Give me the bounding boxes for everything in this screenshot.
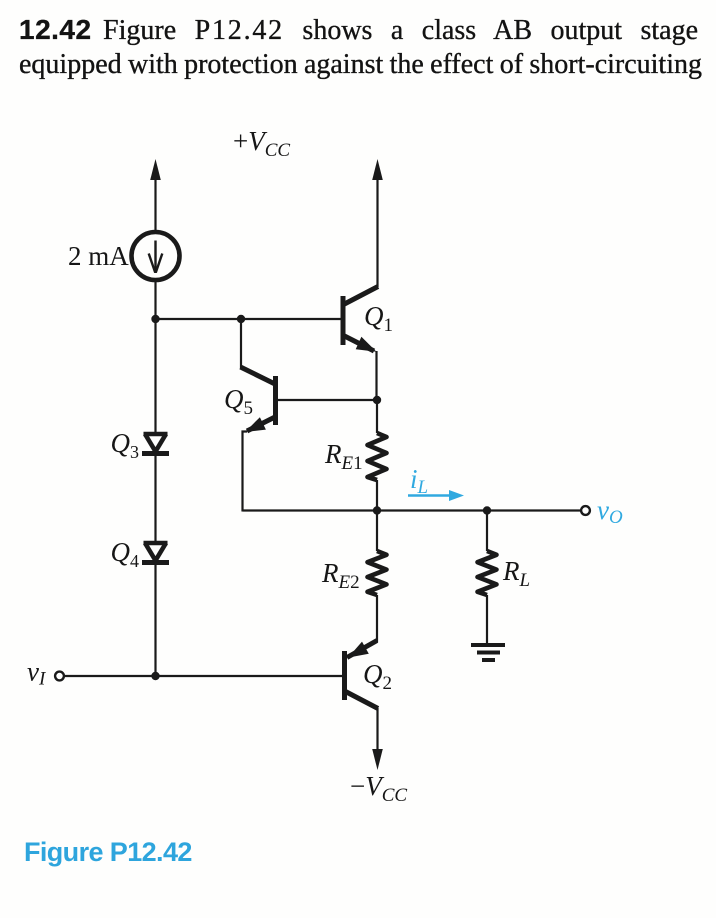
svg-text:Q3: Q3 — [111, 428, 140, 462]
svg-text:RE1: RE1 — [324, 439, 363, 474]
svg-text:Q2: Q2 — [363, 659, 392, 694]
svg-text:iL: iL — [410, 464, 428, 498]
wire left rail node to Q3 — [154, 319, 156, 433]
wire current source to node row — [154, 280, 156, 319]
svg-text:vI: vI — [27, 657, 47, 690]
node input row — [151, 672, 159, 680]
current source 2 mA — [132, 232, 180, 280]
wire Q1 emitter to node — [375, 351, 377, 400]
current arrow iL — [408, 490, 464, 501]
label vI — [27, 657, 47, 690]
svg-text:Q5: Q5 — [224, 384, 253, 419]
wire output row middle — [377, 509, 487, 511]
svg-text:RE2: RE2 — [321, 558, 360, 593]
svg-text:+VCC: +VCC — [233, 126, 290, 161]
diode Q4 — [142, 543, 169, 563]
node left rail / base row — [151, 315, 159, 323]
svg-text:−VCC: −VCC — [350, 771, 407, 806]
wire RE2 top — [376, 511, 378, 552]
wire Q5 emitter down — [243, 432, 248, 512]
node output / RL — [483, 506, 491, 514]
label Q3 — [111, 428, 140, 462]
wire Q5 base to RE1 node — [277, 399, 377, 401]
wire RL riser — [486, 511, 488, 552]
wire RL to ground — [486, 595, 488, 644]
wire RE1 to output node — [376, 480, 378, 511]
svg-text:Q1: Q1 — [364, 301, 393, 336]
node Q1 emitter / Q5 base — [373, 396, 381, 404]
resistor RE1 — [368, 433, 387, 480]
transistor Q1 — [343, 287, 378, 352]
wire input row — [64, 675, 344, 677]
wire Q1 collector to +VCC arrow — [372, 159, 383, 287]
wire Q3 to Q4 — [154, 455, 156, 541]
power rail +VCC label — [233, 126, 290, 161]
terminal vO — [581, 506, 590, 515]
svg-text:2 mA: 2 mA — [68, 241, 129, 271]
wire output row left — [243, 509, 378, 511]
diode Q3 — [142, 434, 169, 454]
wire node to RE1 — [376, 400, 378, 433]
resistor RE2 — [368, 551, 387, 595]
wire RE2 to Q2 emitter — [376, 595, 378, 642]
label Q5 — [224, 384, 253, 419]
label 2 mA — [68, 241, 129, 271]
wire left supply arrow — [150, 159, 161, 231]
node base row / Q5 branch — [237, 315, 245, 323]
terminal vI — [55, 672, 64, 681]
ground — [471, 645, 505, 660]
label Q1 — [364, 301, 393, 336]
label iL — [410, 464, 428, 498]
label RE1 — [324, 439, 363, 474]
transistor Q2 — [345, 641, 379, 709]
power rail -VCC label — [350, 771, 407, 806]
transistor Q5 — [241, 367, 277, 432]
wire Q5 collector riser — [240, 319, 242, 368]
svg-text:Q4: Q4 — [111, 537, 140, 571]
svg-text:vO: vO — [597, 495, 623, 528]
wire Q2 collector to -VCC arrow — [372, 708, 383, 770]
node output / RE1 — [373, 506, 381, 514]
svg-text:RL: RL — [502, 556, 530, 591]
label vO — [597, 495, 623, 528]
label Q4 — [111, 537, 140, 571]
label Q2 — [363, 659, 392, 694]
wire Q4 to input row — [154, 564, 156, 676]
wire base row to Q1 — [156, 318, 343, 320]
label RE2 — [321, 558, 360, 593]
resistor RL — [478, 551, 497, 595]
wire output row right — [487, 509, 581, 511]
label RL — [502, 556, 530, 591]
